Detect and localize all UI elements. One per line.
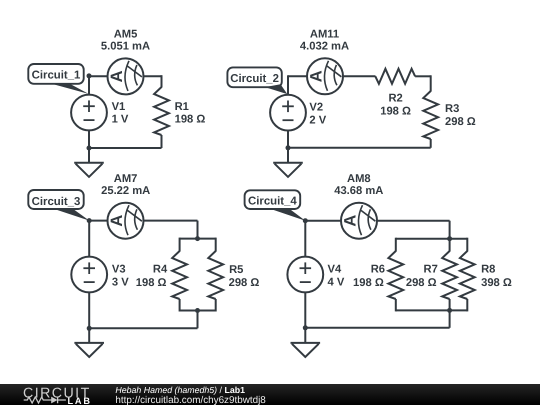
wire R7 bottom lead bbox=[449, 299, 451, 310]
wire V3 minus down through junction to ground bbox=[88, 292, 90, 343]
voltage source V2 2V bbox=[270, 95, 306, 131]
node junction dot top bus circuit 4 bbox=[447, 236, 452, 241]
svg-text:198 Ω: 198 Ω bbox=[175, 114, 206, 126]
wire bottom rail circuit 2 bbox=[288, 147, 431, 149]
wire corner down to parallel bus bbox=[449, 221, 451, 239]
wire node A down to V1 plus terminal bbox=[88, 76, 90, 95]
wire bottom rail circuit 4 bbox=[305, 327, 449, 329]
ammeter AM7 bbox=[108, 203, 144, 239]
resistor R2 zigzag horizontal bbox=[375, 69, 415, 84]
wire V1 minus down through junction to ground bbox=[88, 130, 90, 163]
node junction dot bottom bus bbox=[195, 308, 200, 313]
resistor R3 zigzag bbox=[423, 91, 438, 139]
svg-text:R4: R4 bbox=[153, 263, 168, 275]
wire bottom bus R4-R5 bbox=[180, 310, 216, 312]
svg-text:Circuit_2: Circuit_2 bbox=[230, 73, 279, 85]
svg-text:3 V: 3 V bbox=[112, 277, 129, 289]
svg-text:http://circuitlab.com/chy6z9tb: http://circuitlab.com/chy6z9tbwtdj8 bbox=[115, 395, 266, 405]
svg-text:LAB: LAB bbox=[68, 396, 92, 405]
voltage source V4 4V bbox=[287, 257, 323, 293]
wire corner down to resistor R1 bbox=[161, 75, 163, 87]
wire V2 minus down through junction to ground bbox=[287, 130, 289, 163]
label pointer wedge Circuit_3 bbox=[55, 209, 89, 220]
wire bottom rail circuit 3 bbox=[89, 327, 197, 329]
svg-text:R1: R1 bbox=[175, 101, 189, 113]
wire V2 top stub bbox=[287, 75, 289, 95]
svg-text:AM8: AM8 bbox=[347, 173, 371, 185]
svg-text:Hebah Hamed (hamedh5) / Lab1: Hebah Hamed (hamedh5) / Lab1 bbox=[115, 385, 245, 395]
wire R6 bottom lead bbox=[395, 299, 397, 311]
logo schematic squiggle (resistor + diode) bbox=[24, 397, 66, 404]
ground circuit 4 bbox=[291, 342, 321, 344]
net label box Circuit_4 bbox=[245, 190, 301, 209]
svg-text:V3: V3 bbox=[112, 263, 126, 275]
wire R5 top lead bbox=[215, 238, 217, 252]
footer black bar bbox=[0, 384, 540, 405]
voltage source V3 3V bbox=[71, 257, 107, 293]
ground circuit 2 bbox=[273, 162, 303, 164]
label pointer wedge Circuit_1 bbox=[52, 84, 89, 94]
svg-text:Circuit_3: Circuit_3 bbox=[32, 196, 81, 208]
ammeter AM8 bbox=[341, 203, 377, 239]
wire R8 top lead bbox=[466, 238, 468, 252]
net label box Circuit_2 bbox=[227, 67, 281, 87]
svg-text:298 Ω: 298 Ω bbox=[406, 277, 437, 289]
svg-text:R8: R8 bbox=[481, 263, 495, 275]
resistor R8 zigzag bbox=[460, 251, 475, 299]
wire top bus R4-R5 bbox=[180, 238, 216, 240]
svg-text:398 Ω: 398 Ω bbox=[481, 277, 512, 289]
wire corner down to parallel bus bbox=[197, 221, 199, 239]
wire bus down to bottom rail bbox=[449, 310, 451, 327]
svg-text:R5: R5 bbox=[229, 264, 243, 276]
svg-text:25.22 mA: 25.22 mA bbox=[101, 185, 150, 197]
svg-text:R6: R6 bbox=[371, 263, 385, 275]
svg-text:A: A bbox=[108, 70, 126, 82]
net label box Circuit_3 bbox=[28, 190, 83, 209]
svg-text:A: A bbox=[342, 215, 360, 227]
svg-text:R3: R3 bbox=[445, 103, 459, 115]
svg-text:43.68 mA: 43.68 mA bbox=[334, 185, 383, 197]
svg-text:R7: R7 bbox=[423, 263, 437, 275]
svg-text:V1: V1 bbox=[112, 101, 126, 113]
svg-text:A: A bbox=[108, 215, 126, 227]
wire resistor R1 bottom to rail bbox=[161, 135, 163, 148]
svg-text:4 V: 4 V bbox=[328, 277, 345, 289]
svg-text:V2: V2 bbox=[309, 102, 323, 114]
svg-text:AM11: AM11 bbox=[310, 29, 339, 41]
svg-text:298 Ω: 298 Ω bbox=[229, 277, 260, 289]
wire ammeter AM11 to resistor R2 bbox=[342, 75, 376, 77]
svg-text:Circuit_4: Circuit_4 bbox=[248, 195, 297, 207]
wire ammeter AM5 to R1 top corner bbox=[143, 75, 162, 77]
wire ammeter AM7 to top-right corner bbox=[143, 220, 198, 222]
voltage source V1 1V bbox=[71, 95, 107, 131]
svg-text:198 Ω: 198 Ω bbox=[380, 106, 411, 118]
node junction dot bottom rail circuit 4 bbox=[303, 325, 308, 330]
wire R5 bottom lead bbox=[215, 299, 217, 312]
ammeter AM5 bbox=[108, 58, 144, 94]
label pointer wedge Circuit_2 bbox=[265, 84, 287, 94]
wire corner down to resistor R3 bbox=[430, 75, 432, 91]
svg-text:R2: R2 bbox=[388, 93, 402, 105]
svg-text:1 V: 1 V bbox=[112, 113, 129, 125]
wire bus down to bottom rail bbox=[197, 311, 199, 329]
resistor R1 zigzag bbox=[154, 87, 169, 135]
net label box Circuit_1 bbox=[28, 64, 83, 84]
svg-text:AM7: AM7 bbox=[114, 173, 138, 185]
node junction dot bottom of V2 bbox=[286, 145, 291, 150]
svg-text:AM5: AM5 bbox=[114, 29, 138, 41]
wire node to ammeter AM7 bbox=[89, 220, 108, 222]
svg-text:V4: V4 bbox=[328, 263, 342, 275]
wire R4 top lead bbox=[179, 238, 181, 252]
wire node down to V3 plus bbox=[88, 221, 90, 258]
ammeter AM11 bbox=[307, 58, 343, 94]
wire R6 top lead bbox=[395, 238, 397, 252]
wire top bus R6-R7-R8 bbox=[396, 238, 468, 240]
wire bottom rail circuit 1 bbox=[89, 147, 162, 149]
wire R4 bottom lead bbox=[179, 299, 181, 312]
resistor R6 zigzag bbox=[388, 251, 403, 299]
wire bottom bus R6-R7-R8 bbox=[396, 309, 468, 311]
wire V2 top corner to ammeter AM11 bbox=[288, 75, 308, 77]
resistor R5 zigzag bbox=[208, 251, 223, 299]
resistor R7 zigzag bbox=[442, 251, 457, 299]
wire node down to V4 plus bbox=[304, 221, 306, 258]
node junction dot at bottom rail circuit 1 bbox=[87, 146, 92, 151]
svg-text:198 Ω: 198 Ω bbox=[136, 277, 167, 289]
node junction dot circuit 4 top bbox=[303, 218, 308, 223]
wire R2 to top-right corner bbox=[415, 75, 431, 77]
node junction dot bottom bus circuit 4 bbox=[447, 308, 452, 313]
svg-text:2 V: 2 V bbox=[309, 114, 326, 126]
wire R8 bottom lead bbox=[466, 299, 468, 311]
label pointer wedge Circuit_4 bbox=[272, 209, 306, 220]
wire R3 bottom to rail bbox=[430, 139, 432, 148]
svg-text:A: A bbox=[308, 70, 326, 82]
ground circuit 3 bbox=[74, 342, 104, 344]
node junction dot circuit 3 top bbox=[87, 218, 92, 223]
node junction dot bottom rail bbox=[87, 326, 92, 331]
svg-text:4.032 mA: 4.032 mA bbox=[300, 40, 349, 52]
wire V4 minus down through junction to ground bbox=[304, 292, 306, 343]
resistor R4 zigzag bbox=[172, 251, 187, 299]
node junction dot top bus bbox=[195, 236, 200, 241]
svg-text:5.051 mA: 5.051 mA bbox=[101, 40, 150, 52]
wire ammeter AM8 to top-right corner bbox=[376, 220, 450, 222]
wire node A to ammeter AM5 (circuit 1 top) bbox=[89, 75, 109, 77]
svg-text:198 Ω: 198 Ω bbox=[353, 277, 384, 289]
node junction dot at top-left of circuit 1 bbox=[87, 73, 92, 78]
svg-text:298 Ω: 298 Ω bbox=[445, 116, 476, 128]
ground circuit 1 bbox=[74, 162, 104, 164]
wire R7 top lead bbox=[449, 239, 451, 252]
wire node to ammeter AM8 bbox=[305, 220, 342, 222]
svg-text:Circuit_1: Circuit_1 bbox=[32, 70, 81, 82]
